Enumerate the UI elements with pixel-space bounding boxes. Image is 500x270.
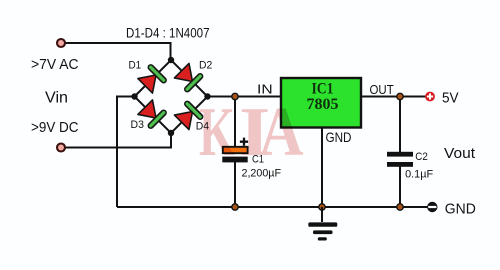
svg-text:7805: 7805	[307, 96, 339, 113]
ground symbol	[308, 207, 337, 241]
bridge vertex node top	[168, 57, 174, 63]
svg-text:D2: D2	[199, 60, 212, 72]
terminal 5V output	[425, 92, 435, 102]
svg-text:C1: C1	[252, 153, 264, 165]
svg-text:D3: D3	[131, 119, 144, 131]
capacitor C2 bottom plate	[387, 162, 413, 167]
diode D4	[173, 100, 203, 130]
wire: 9V DC terminal to bridge bottom	[61, 133, 171, 148]
wire: IC OUT to 5V terminal	[361, 96, 426, 98]
bridge vertex node left	[131, 93, 137, 99]
capacitor C1 plus sign	[240, 138, 248, 146]
junction node C1 bottom	[231, 203, 239, 211]
wire: bridge left vertex to ground rail	[117, 97, 135, 208]
svg-text:IC1: IC1	[312, 81, 334, 98]
bridge vertex node right	[204, 93, 210, 99]
capacitor C1 negative plate	[222, 157, 247, 163]
diode D3	[137, 99, 167, 129]
junction node C2 bottom	[396, 203, 404, 211]
junction node C1 top	[231, 93, 239, 101]
svg-text:>7V AC: >7V AC	[31, 56, 79, 73]
diode D2	[173, 62, 203, 92]
wire: C2 branch upper	[399, 97, 401, 153]
svg-text:D1: D1	[129, 60, 142, 72]
regulator IC1 7805 body	[281, 78, 361, 128]
svg-text:>9V DC: >9V DC	[31, 119, 79, 136]
svg-text:GND: GND	[445, 201, 476, 218]
capacitor C2 top plate	[387, 152, 413, 157]
svg-text:D4: D4	[196, 121, 209, 133]
wire: ground rail	[117, 206, 428, 208]
junction node C2 top	[396, 93, 404, 101]
terminal 7V AC input	[57, 39, 65, 47]
svg-text:0.1µF: 0.1µF	[405, 168, 433, 180]
svg-text:OUT: OUT	[370, 82, 394, 97]
bridge vertex node bottom	[168, 130, 174, 136]
terminal 9V DC input	[57, 144, 65, 152]
wire: bridge right vertex to IC IN	[208, 96, 282, 98]
diode D1	[137, 64, 167, 94]
svg-text:C2: C2	[415, 151, 428, 163]
bridge rectifier diamond wires	[135, 60, 208, 133]
terminal GND output	[427, 202, 437, 212]
svg-text:5V: 5V	[442, 90, 459, 107]
svg-text:Vout: Vout	[444, 146, 475, 162]
svg-text:D1-D4 : 1N4007: D1-D4 : 1N4007	[126, 25, 210, 41]
wire: IC GND pin down to rail	[321, 128, 323, 208]
svg-text:IN: IN	[257, 81, 273, 96]
wire: 7V AC terminal to bridge top	[61, 43, 171, 60]
svg-text:GND: GND	[326, 130, 352, 145]
capacitor C1 positive plate	[223, 147, 248, 153]
wire: C2 branch lower	[399, 167, 401, 208]
junction node ground	[318, 203, 326, 211]
svg-text:2,200µF: 2,200µF	[242, 168, 282, 180]
wire: C1 branch upper	[234, 97, 236, 148]
svg-text:Vin: Vin	[45, 90, 68, 107]
wire: C1 branch lower	[234, 162, 236, 207]
